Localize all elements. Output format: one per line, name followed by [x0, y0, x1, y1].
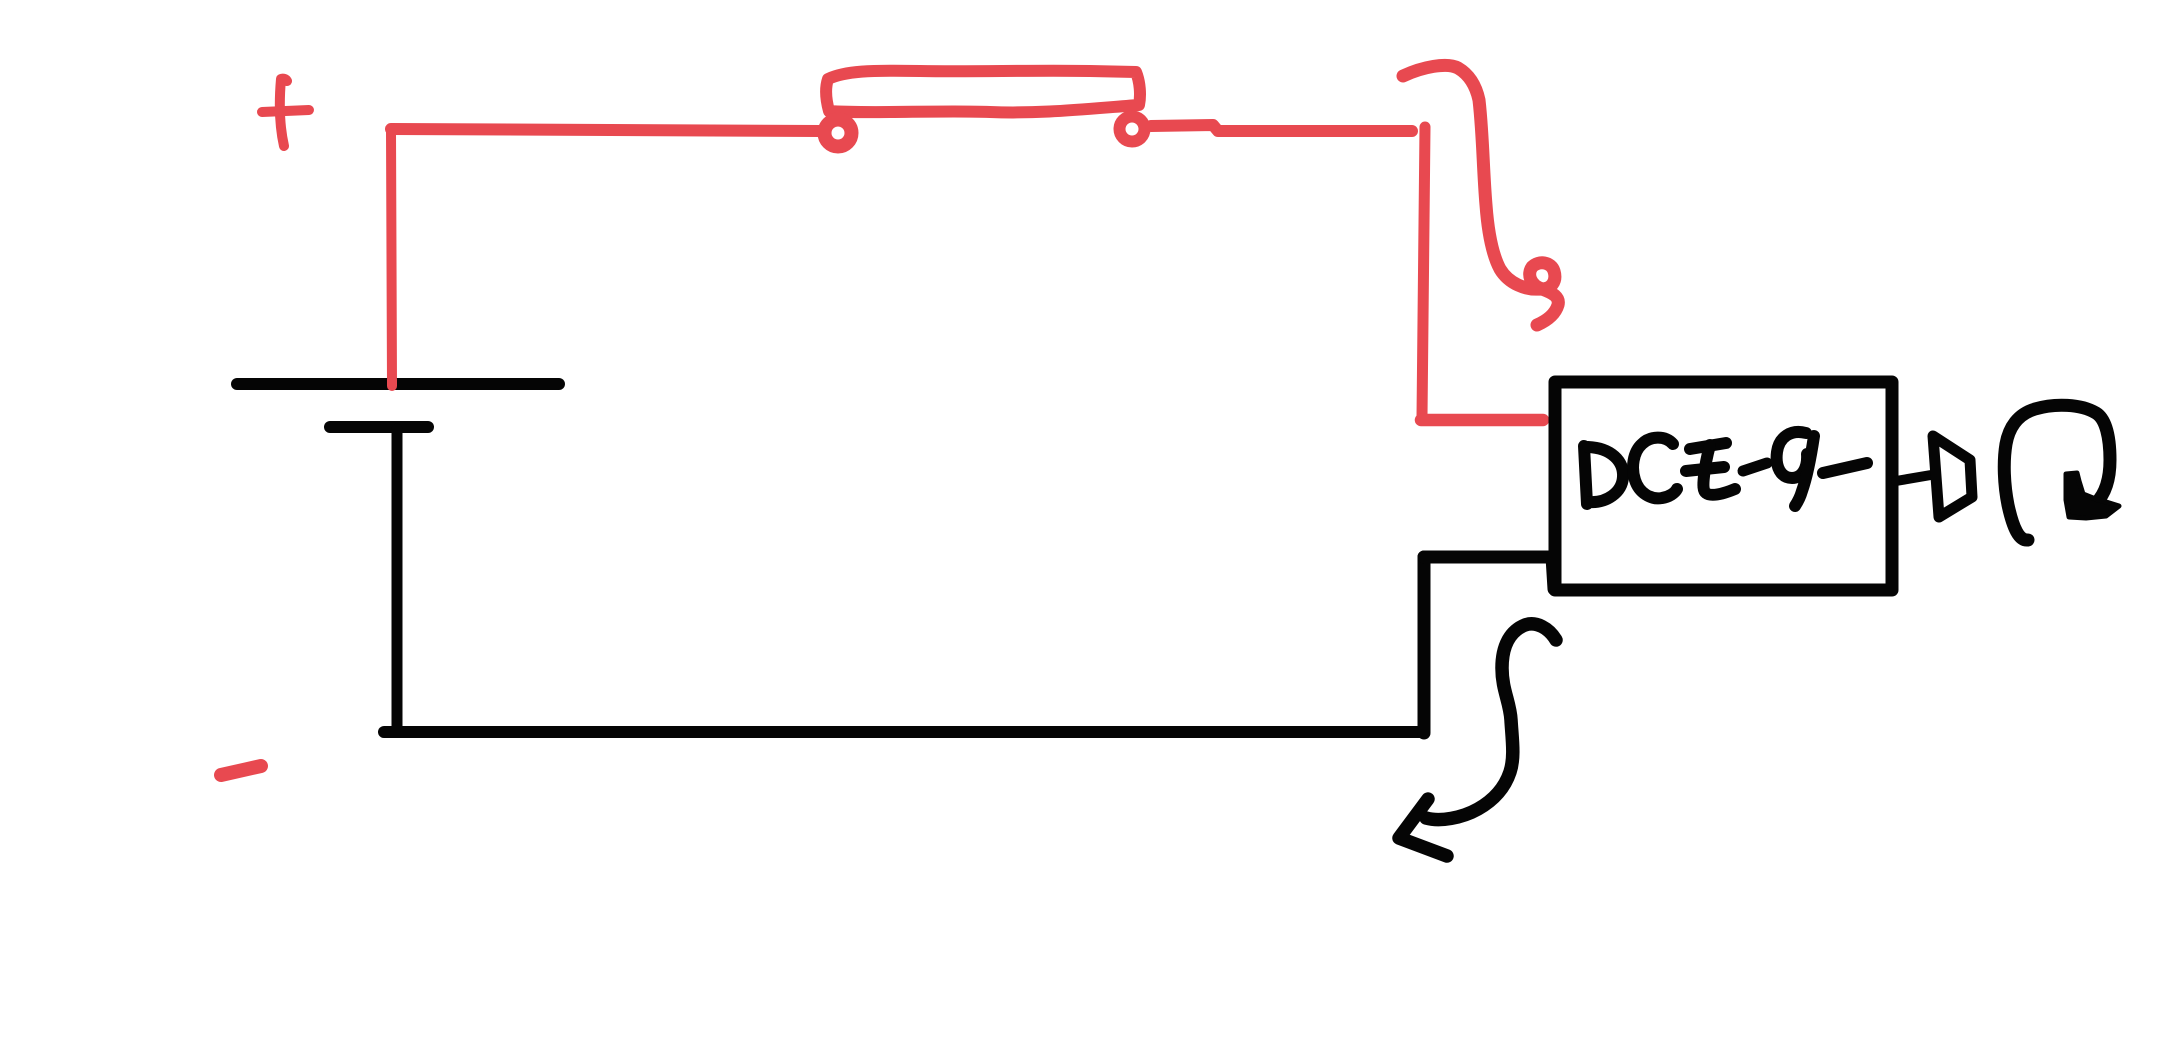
battery B1 top plate (positive, long) — [237, 378, 559, 390]
black squiggle pointer arrow under box — [1426, 624, 1556, 820]
fuse F1 body — [826, 71, 1140, 113]
box label letter C — [1633, 438, 1677, 499]
rotation arrow head — [2066, 473, 2119, 518]
box label letter D — [1584, 446, 1587, 504]
wire red vertical from + node down to battery plate — [391, 131, 392, 385]
wire red tip overlapping battery plate — [387, 379, 397, 386]
wire red horizontal from battery + to fuse left terminal — [391, 129, 820, 131]
speaker output stub wire — [1896, 475, 1931, 481]
speaker / buzzer cone symbol — [1933, 436, 1972, 517]
red squiggle pointer arrow near top-right — [1403, 65, 1558, 325]
box label digit 9 — [1777, 432, 1807, 478]
rotation arrow arc — [2004, 405, 2110, 540]
battery positive terminal "+" label — [262, 79, 309, 146]
wire black horizontal into box bottom corner — [1424, 557, 1554, 589]
wire red horizontal into DCE box — [1421, 414, 1543, 427]
wire red horizontal from fuse right terminal to corner — [1151, 125, 1412, 131]
battery negative terminal "-" label — [221, 766, 261, 775]
wire red vertical down to DCE box level — [1422, 127, 1425, 417]
motor driver box U1 — [1555, 382, 1892, 590]
battery B1 bottom plate (negative, short) — [330, 421, 428, 433]
box label dash 1 — [1743, 463, 1767, 471]
wire black bottom horizontal — [384, 726, 1424, 738]
box label letter E — [1690, 443, 1726, 449]
box label dash 2 — [1823, 463, 1867, 473]
wire black vertical up to box — [1418, 557, 1431, 733]
fuse F1 right terminal — [1120, 117, 1145, 142]
wire black battery stem down — [392, 429, 403, 731]
fuse F1 left terminal — [825, 120, 852, 147]
